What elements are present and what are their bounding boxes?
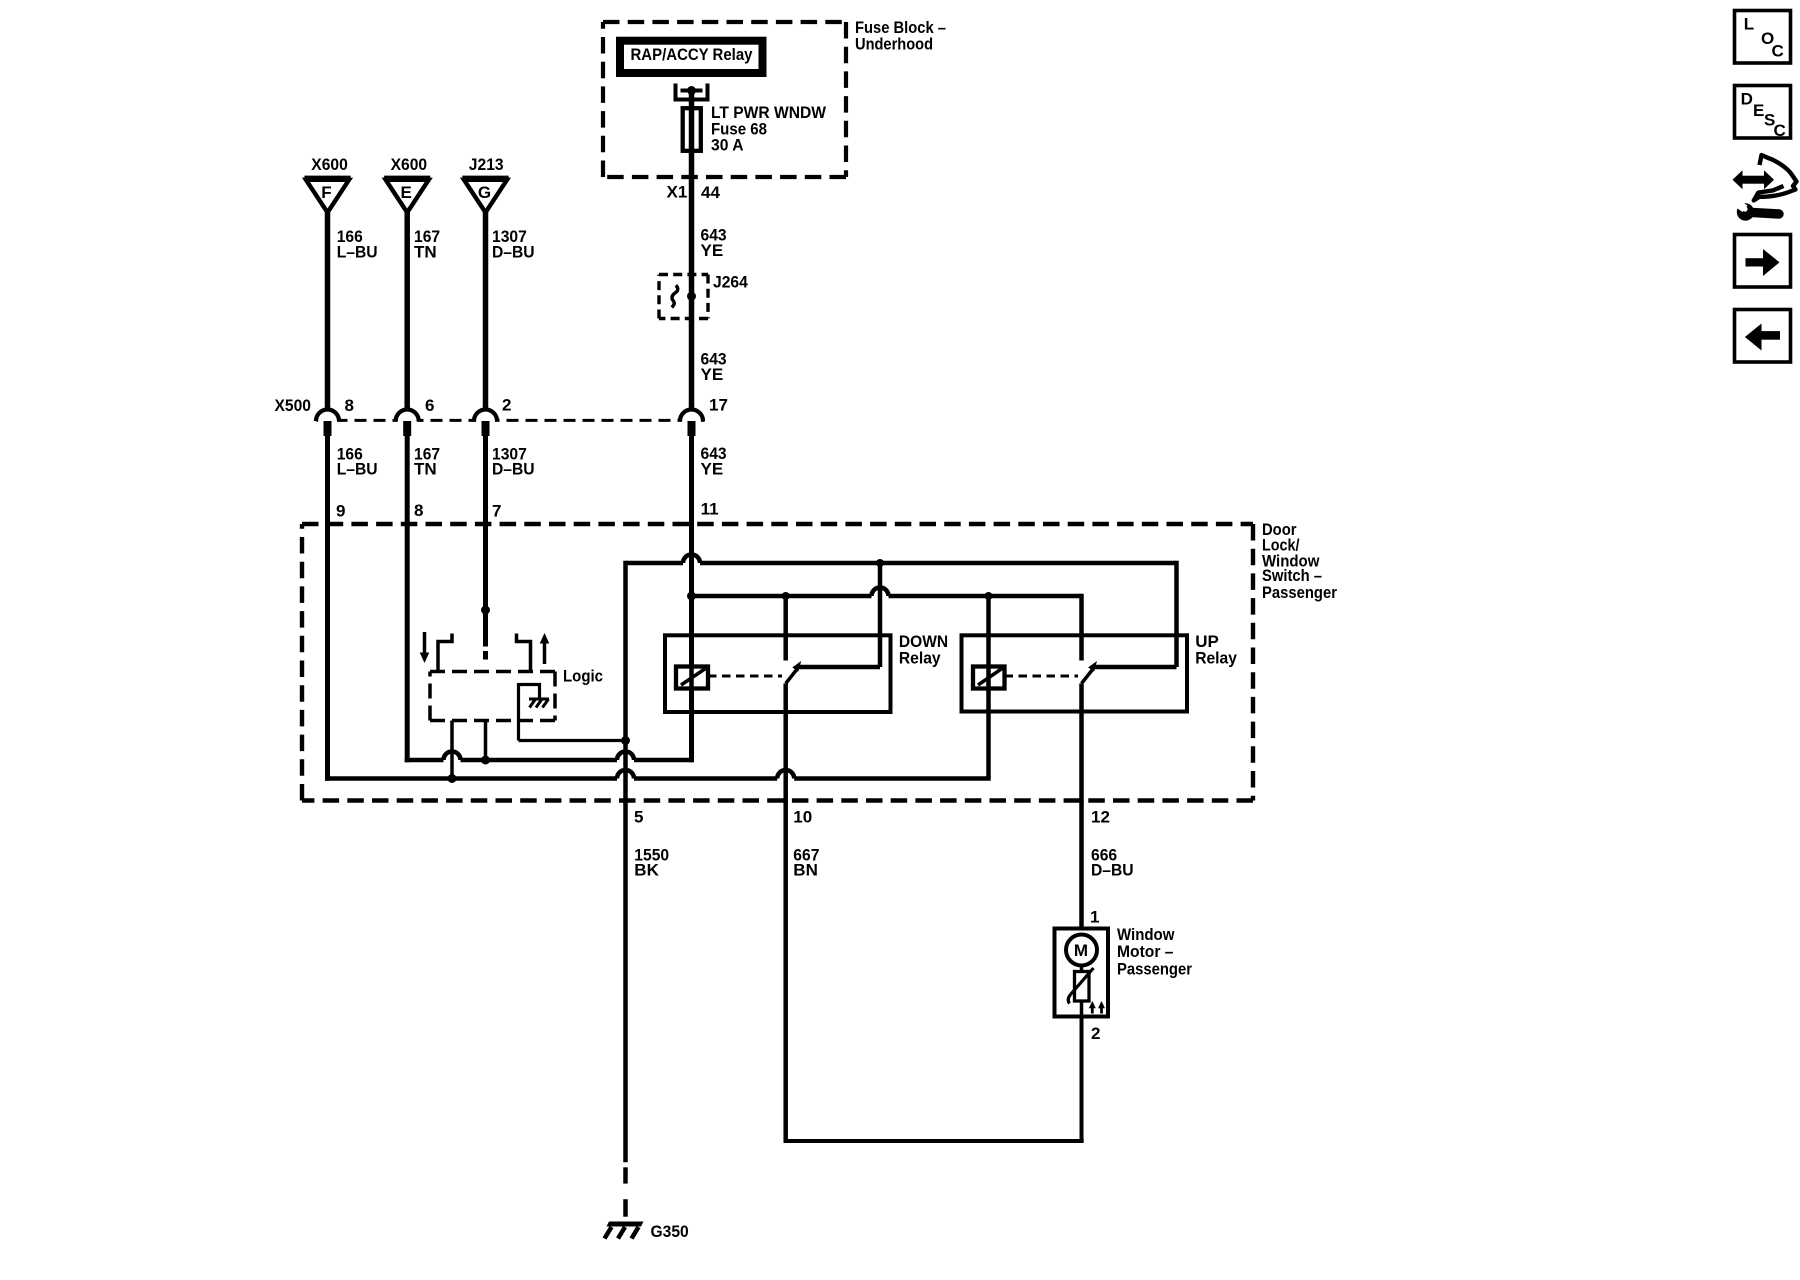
svg-text:Passenger: Passenger xyxy=(1262,583,1337,602)
wire: logic output to wire8 (right) xyxy=(484,721,488,761)
wire: logic output to wire9 (left) xyxy=(450,721,454,779)
wire 1307 D-BU upper segment xyxy=(483,209,489,410)
svg-text:L: L xyxy=(1744,15,1754,34)
wire 166 L-BU upper segment xyxy=(325,209,331,410)
wire: ground to pin 5 (1550 BK) xyxy=(623,561,628,1162)
svg-text:TN: TN xyxy=(414,242,437,261)
wire: pin10 to motor loop xyxy=(783,801,788,1142)
motor thermal limiter (PTC) xyxy=(1075,972,1090,1002)
svg-text:BK: BK xyxy=(634,861,659,880)
up arrow xyxy=(543,642,547,664)
svg-text:X600: X600 xyxy=(311,155,348,174)
fuse F68 (LT PWR WNDW Fuse 68 30 A) xyxy=(683,108,701,151)
svg-text:YE: YE xyxy=(701,241,724,260)
down relay lever xyxy=(786,669,798,684)
svg-text:X600: X600 xyxy=(391,155,428,174)
svg-text:C: C xyxy=(1774,121,1786,140)
svg-text:17: 17 xyxy=(709,396,728,415)
svg-text:1: 1 xyxy=(1090,907,1099,926)
svg-text:9: 9 xyxy=(336,501,345,520)
svg-text:RAP/ACCY Relay: RAP/ACCY Relay xyxy=(631,45,753,64)
wire 167 into box (pin 8) xyxy=(405,426,410,762)
svg-text:Underhood: Underhood xyxy=(855,34,933,53)
node: down relay NO tap xyxy=(782,592,790,600)
wire 166 into box (pin 9) xyxy=(325,426,330,781)
icon: hand/double-arrow tool xyxy=(1733,155,1797,221)
connector X500 terminal at x=485.5 xyxy=(474,410,497,422)
svg-text:X500: X500 xyxy=(275,396,312,415)
wire: pin12 to motor xyxy=(1079,801,1084,929)
wire: power bus (second horizontal) xyxy=(692,594,872,599)
wire: relay output to X1-44 down through fuse xyxy=(689,91,695,411)
node: logic to wire8 xyxy=(481,756,490,765)
svg-text:YE: YE xyxy=(701,365,724,384)
svg-text:E: E xyxy=(401,183,412,202)
svg-text:Motor –: Motor – xyxy=(1117,942,1174,961)
connector X600 terminal E (triangle) xyxy=(386,180,429,213)
icon: forward arrow box xyxy=(1735,235,1791,288)
relay: DOWN Relay (box) xyxy=(665,635,891,712)
wire: 643 through down coil to wire8 xyxy=(689,596,694,760)
wire: motor pin 2 down xyxy=(1080,1017,1084,1142)
svg-text:J213: J213 xyxy=(469,155,504,174)
wire: logic ground to pin5 line xyxy=(517,683,520,741)
node: wire 1307 junction xyxy=(481,606,490,615)
wire 643 into box (pin 11) xyxy=(689,426,694,762)
two up arrows xyxy=(1091,1006,1094,1014)
svg-text:2: 2 xyxy=(502,395,511,414)
svg-text:30 A: 30 A xyxy=(711,136,744,155)
logic block (dashed) xyxy=(430,670,555,674)
svg-text:8: 8 xyxy=(345,396,354,415)
down relay coil xyxy=(676,667,708,689)
up relay NO contact (power bus corner) xyxy=(1079,594,1084,661)
connector J213 terminal G (triangle) xyxy=(464,180,507,213)
relay output bracket xyxy=(676,84,708,100)
connector X500 terminal at x=407.2 xyxy=(396,410,419,422)
door lock/window switch - passenger (dashed enclosure) xyxy=(302,522,1253,526)
down relay dashed actuator link xyxy=(708,675,782,678)
svg-text:11: 11 xyxy=(701,500,719,519)
relay: UP Relay (box) xyxy=(962,635,1188,711)
svg-text:F: F xyxy=(321,183,331,202)
svg-text:E: E xyxy=(1753,101,1764,120)
svg-text:8: 8 xyxy=(414,501,423,520)
up relay NC ground path xyxy=(1174,561,1179,667)
motor M circle xyxy=(1066,935,1097,966)
right momentary switch symbol xyxy=(517,634,531,672)
connector X500 terminal at x=691.5 xyxy=(680,410,703,422)
connector X600 terminal F (triangle) xyxy=(306,180,349,213)
up relay lever xyxy=(1082,669,1094,684)
svg-text:6: 6 xyxy=(425,396,434,415)
wire 1307 into box (pin 7) xyxy=(483,426,488,647)
connector X500 terminal at x=327.5 xyxy=(316,410,339,422)
svg-text:M: M xyxy=(1074,941,1088,960)
splice symbol xyxy=(672,285,678,307)
svg-text:YE: YE xyxy=(701,460,724,479)
node: down relay NC ground tap xyxy=(876,559,884,567)
svg-text:Relay: Relay xyxy=(1195,649,1237,668)
svg-text:5: 5 xyxy=(634,808,643,827)
up relay coil xyxy=(973,667,1005,689)
wire: power bus through up coil to wire9 xyxy=(986,596,991,779)
svg-text:Passenger: Passenger xyxy=(1117,959,1192,978)
left momentary switch symbol xyxy=(438,634,452,672)
down arrow xyxy=(423,632,427,654)
svg-text:7: 7 xyxy=(492,501,501,520)
wire: ground bus (top horizontal) xyxy=(626,561,684,566)
wire: up relay common to pin 12 xyxy=(1079,684,1084,803)
svg-text:Window: Window xyxy=(1117,925,1175,944)
wire 167 TN upper segment xyxy=(404,209,410,410)
icon: LOC box xyxy=(1735,11,1791,64)
svg-text:10: 10 xyxy=(793,808,812,827)
svg-text:C: C xyxy=(1772,41,1784,60)
node: up relay coil tap xyxy=(985,592,993,600)
node: logic ground junction xyxy=(621,736,630,745)
node: J264 junction xyxy=(687,292,696,301)
svg-text:Logic: Logic xyxy=(563,666,603,685)
icon: DESC box xyxy=(1735,86,1791,139)
wire: 167 TN horizontal (to down coil) xyxy=(405,758,444,763)
svg-text:TN: TN xyxy=(414,460,437,479)
node: relay output junction xyxy=(687,86,696,95)
wire: 1550 BK dashed to ground xyxy=(623,1167,628,1183)
splice J264 (dashed box) xyxy=(659,273,708,276)
svg-text:J264: J264 xyxy=(713,272,748,291)
svg-text:12: 12 xyxy=(1091,808,1110,827)
fuse block - underhood (dashed enclosure) xyxy=(603,20,846,24)
svg-text:L–BU: L–BU xyxy=(337,460,378,479)
svg-text:X1: X1 xyxy=(667,183,688,202)
node: power bus from pin 11 xyxy=(687,592,696,601)
connector X500 (dashed line) xyxy=(317,419,705,422)
svg-text:D–BU: D–BU xyxy=(492,242,535,261)
svg-text:G350: G350 xyxy=(651,1222,689,1241)
svg-text:D: D xyxy=(1741,90,1753,109)
relay K (RAP/ACCY Relay) xyxy=(620,41,763,73)
svg-text:2: 2 xyxy=(1091,1024,1100,1043)
icon: back arrow box xyxy=(1735,310,1791,363)
svg-text:BN: BN xyxy=(793,861,818,880)
up relay dashed actuator link xyxy=(1005,675,1079,678)
wire: down relay common to pin 10 xyxy=(783,684,788,803)
wire: 166 L-BU horizontal (to up coil) xyxy=(325,776,617,781)
down relay NC ground path xyxy=(878,563,883,667)
node: logic to wire9 xyxy=(448,774,457,783)
svg-text:L–BU: L–BU xyxy=(337,242,378,261)
ground G350 xyxy=(607,1222,644,1227)
svg-text:Relay: Relay xyxy=(899,649,941,668)
logic internal ground xyxy=(519,685,540,699)
svg-text:G: G xyxy=(478,183,491,202)
svg-text:D–BU: D–BU xyxy=(1091,861,1134,880)
down relay NO contact xyxy=(783,596,788,661)
svg-text:D–BU: D–BU xyxy=(492,460,535,479)
svg-text:44: 44 xyxy=(701,183,720,202)
window motor - passenger (box) xyxy=(1055,929,1109,1017)
